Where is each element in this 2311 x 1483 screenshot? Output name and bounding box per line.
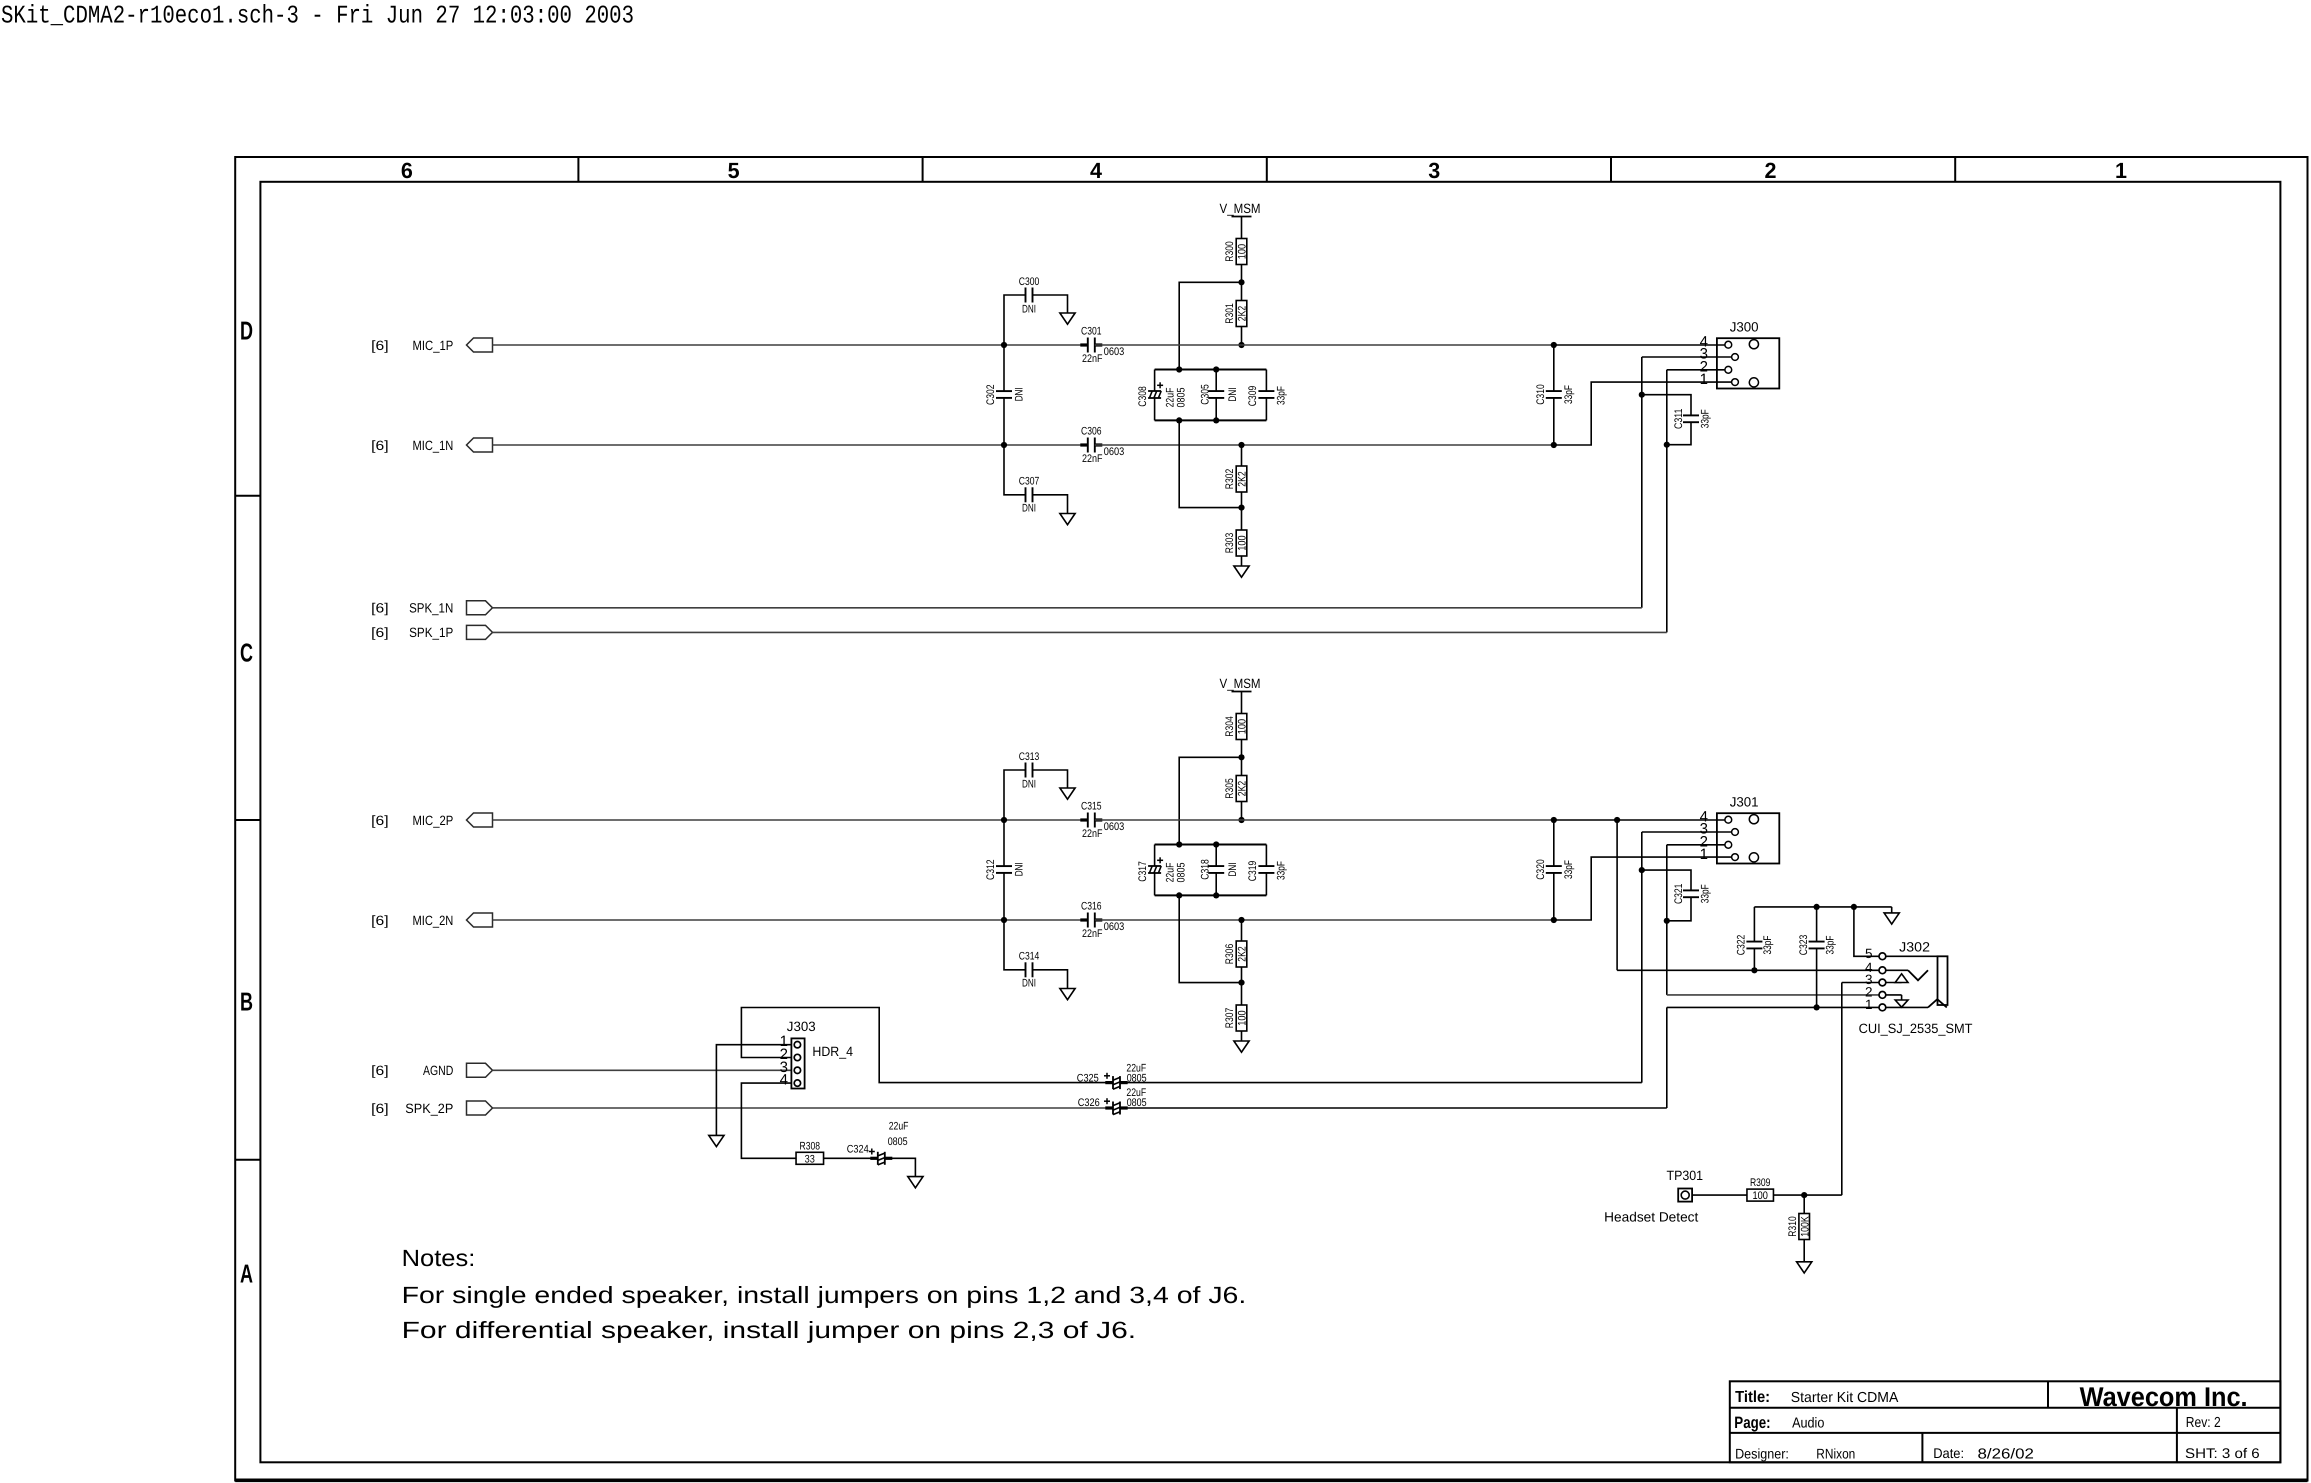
wire	[493, 1107, 1113, 1109]
svg-text:DNI: DNI	[1227, 863, 1239, 877]
connector J302	[1859, 940, 1973, 1037]
svg-text:33: 33	[805, 1153, 815, 1165]
svg-text:C313: C313	[1019, 751, 1040, 763]
ground	[1060, 514, 1075, 525]
junction	[1238, 980, 1244, 986]
svg-text:AGND: AGND	[423, 1063, 453, 1078]
svg-text:6: 6	[401, 158, 413, 183]
pin 2	[780, 1046, 788, 1063]
svg-text:HDR_4: HDR_4	[812, 1044, 853, 1059]
wire	[1616, 820, 1618, 970]
pin 2	[1700, 359, 1708, 376]
pin 4	[1700, 808, 1708, 825]
capacitor C321	[1642, 870, 1712, 921]
wire	[1004, 770, 1026, 820]
svg-text:C300: C300	[1019, 276, 1040, 288]
svg-text:R307: R307	[1224, 1008, 1236, 1028]
wire	[1095, 344, 1554, 346]
ground	[1797, 1262, 1812, 1273]
wire	[493, 631, 1667, 633]
port SPK_1P	[371, 625, 492, 640]
junction	[1238, 442, 1244, 448]
wire	[1241, 920, 1243, 941]
resistor R300	[1224, 239, 1249, 265]
svg-text:8/26/02: 8/26/02	[1978, 1446, 2034, 1462]
junction	[1751, 967, 1757, 973]
resistor R306	[1224, 941, 1249, 967]
wire	[1155, 894, 1267, 896]
resistor R309	[1747, 1177, 1774, 1202]
capacitor C315	[1080, 801, 1124, 840]
svg-text:[6]: [6]	[371, 813, 388, 828]
wire	[741, 1083, 796, 1158]
junction	[1001, 817, 1007, 823]
svg-text:TP301: TP301	[1667, 1168, 1704, 1183]
ground	[1060, 989, 1075, 1000]
capacitor C314	[1019, 951, 1040, 990]
junction	[1851, 904, 1857, 910]
svg-text:SHT: 3 of 6: SHT: 3 of 6	[2185, 1445, 2260, 1461]
wire	[1241, 757, 1243, 775]
wire	[1642, 831, 1735, 833]
svg-text:0603: 0603	[1104, 446, 1125, 458]
jack NC contact	[1895, 974, 1908, 983]
svg-text:3: 3	[1428, 158, 1440, 183]
wire	[1803, 1195, 1805, 1213]
wire	[741, 1008, 1112, 1083]
svg-text:For single ended speaker, inst: For single ended speaker, install jumper…	[402, 1282, 1247, 1308]
pin 4	[1865, 960, 1873, 975]
svg-text:100: 100	[1237, 719, 1249, 734]
capacitor C305	[1200, 370, 1239, 421]
junction	[1238, 917, 1244, 923]
capacitor C317	[1137, 845, 1188, 896]
node Headset Detect	[1604, 1210, 1698, 1225]
junction	[1639, 392, 1645, 398]
pin 3	[1700, 346, 1708, 363]
svg-text:DNI: DNI	[1022, 778, 1036, 790]
svg-text:100K: 100K	[1799, 1216, 1811, 1237]
svg-text:C306: C306	[1081, 426, 1102, 438]
capacitor C301	[1080, 326, 1124, 365]
junction	[1614, 817, 1620, 823]
port MIC_2P	[371, 813, 492, 828]
svg-text:[6]: [6]	[371, 1063, 388, 1078]
wire	[1554, 819, 1729, 821]
capacitor C320	[1535, 820, 1575, 920]
svg-text:C320: C320	[1535, 859, 1547, 880]
svg-text:DNI: DNI	[1022, 978, 1036, 990]
wire	[1095, 919, 1554, 921]
junction	[1238, 279, 1244, 285]
svg-text:33pF: 33pF	[1563, 860, 1575, 879]
svg-text:R305: R305	[1224, 778, 1236, 798]
wire	[1155, 844, 1267, 846]
svg-text:C308: C308	[1137, 386, 1149, 407]
svg-text:B: B	[240, 987, 253, 1017]
capacitor C326	[1078, 1087, 1147, 1114]
svg-text:R301: R301	[1224, 303, 1236, 323]
wire	[1554, 344, 1729, 346]
wire	[1666, 845, 1668, 995]
svg-text:33pF: 33pF	[1699, 884, 1711, 903]
junction	[1213, 366, 1219, 372]
junction	[1213, 841, 1219, 847]
svg-text:33pF: 33pF	[1824, 935, 1836, 954]
svg-text:DNI: DNI	[1022, 303, 1036, 315]
connector J300	[1717, 319, 1779, 388]
svg-text:Audio: Audio	[1792, 1416, 1824, 1432]
pin 4	[1700, 333, 1708, 350]
svg-text:DNI: DNI	[1014, 387, 1026, 401]
wire	[1841, 983, 1843, 1196]
svg-text:J301: J301	[1730, 794, 1759, 809]
svg-text:CUI_SJ_2535_SMT: CUI_SJ_2535_SMT	[1859, 1021, 1973, 1036]
note text	[402, 1245, 1247, 1343]
wire	[1882, 994, 1901, 996]
svg-text:C302: C302	[985, 384, 997, 405]
svg-text:0805: 0805	[1176, 863, 1188, 883]
svg-text:0603: 0603	[1104, 346, 1125, 358]
junction	[1664, 918, 1670, 924]
wire	[1692, 1194, 1747, 1196]
wire	[1155, 369, 1267, 371]
resistor R303	[1224, 530, 1249, 556]
junction	[1001, 342, 1007, 348]
svg-text:[6]: [6]	[371, 438, 388, 453]
wire	[1891, 907, 1893, 913]
ground	[1060, 788, 1075, 799]
junction	[1238, 505, 1244, 511]
power V_MSM	[1220, 201, 1261, 239]
svg-text:Notes:: Notes:	[402, 1245, 476, 1271]
wire	[1033, 770, 1068, 788]
connector J303	[787, 1019, 854, 1089]
resistor R302	[1224, 466, 1249, 492]
svg-text:22uF: 22uF	[889, 1121, 909, 1133]
wire	[493, 444, 1088, 446]
resistor R301	[1224, 301, 1249, 327]
ground	[1234, 1041, 1249, 1052]
wire	[1241, 556, 1243, 566]
capacitor C313	[1019, 751, 1040, 791]
svg-text:Rev: 2: Rev: 2	[2186, 1415, 2221, 1431]
connector J301	[1717, 794, 1779, 863]
wire	[1854, 907, 1883, 956]
wire	[1241, 967, 1243, 983]
ground	[908, 1177, 923, 1188]
svg-text:DNI: DNI	[1014, 862, 1026, 876]
wire	[1033, 295, 1068, 313]
svg-text:[6]: [6]	[371, 913, 388, 928]
svg-text:C318: C318	[1200, 859, 1212, 880]
svg-text:100: 100	[1753, 1190, 1768, 1202]
capacitor C307	[1019, 476, 1040, 515]
svg-text:2: 2	[1765, 158, 1777, 183]
wire	[1241, 282, 1243, 300]
svg-text:V_MSM: V_MSM	[1220, 676, 1261, 691]
svg-text:2K2: 2K2	[1237, 471, 1249, 486]
svg-text:0805: 0805	[888, 1136, 908, 1148]
wire	[1033, 970, 1068, 989]
wire	[1241, 508, 1243, 530]
wire	[1095, 444, 1554, 446]
resistor R307	[1224, 1005, 1249, 1031]
wire	[716, 1045, 791, 1136]
wire	[1003, 820, 1005, 866]
capacitor C309	[1247, 370, 1287, 421]
svg-text:C316: C316	[1081, 901, 1102, 913]
svg-text:C319: C319	[1247, 861, 1259, 882]
svg-text:J303: J303	[787, 1019, 816, 1034]
svg-text:R308: R308	[800, 1140, 820, 1152]
wire	[1241, 1031, 1243, 1041]
pin 1	[780, 1033, 788, 1050]
junction	[1176, 366, 1182, 372]
svg-text:C: C	[240, 638, 253, 668]
svg-text:MIC_2P: MIC_2P	[413, 813, 454, 828]
wire	[1803, 1240, 1805, 1262]
wire	[1667, 994, 1883, 996]
junction	[1213, 417, 1219, 423]
wire	[1241, 492, 1243, 508]
svg-text:J300: J300	[1730, 319, 1759, 334]
wire	[1004, 445, 1026, 495]
capacitor C311	[1642, 395, 1712, 445]
wire	[1882, 955, 1937, 957]
svg-text:22nF: 22nF	[1082, 928, 1103, 940]
wire	[1004, 295, 1026, 345]
junction	[1814, 904, 1820, 910]
svg-text:33pF: 33pF	[1699, 409, 1711, 428]
pin 4	[780, 1072, 788, 1089]
junction	[1551, 442, 1557, 448]
pin 3	[1700, 821, 1708, 838]
svg-text:C323: C323	[1798, 935, 1810, 956]
svg-text:C309: C309	[1247, 386, 1259, 407]
wire	[1003, 873, 1005, 920]
svg-text:Page:: Page:	[1734, 1414, 1770, 1432]
svg-text:C324: C324	[847, 1143, 869, 1155]
pin 3	[780, 1059, 788, 1076]
resistor R305	[1224, 776, 1249, 802]
wire	[1241, 802, 1243, 821]
svg-text:SPK_2P: SPK_2P	[405, 1101, 453, 1116]
junction	[1001, 442, 1007, 448]
ground	[709, 1135, 724, 1146]
wire	[1120, 1107, 1667, 1109]
svg-text:33pF: 33pF	[1762, 935, 1774, 954]
svg-text:R303: R303	[1224, 533, 1236, 553]
jack NC contact 2	[1895, 1000, 1908, 1007]
wire	[824, 1157, 878, 1159]
svg-text:2K2: 2K2	[1237, 306, 1249, 321]
wire	[1842, 982, 1883, 984]
junction	[1814, 1004, 1820, 1010]
wire	[1179, 282, 1241, 369]
svg-text:33pF: 33pF	[1563, 385, 1575, 404]
svg-text:SPK_1P: SPK_1P	[409, 625, 453, 640]
capacitor C324	[847, 1121, 909, 1165]
pin 5	[1865, 946, 1873, 961]
junction	[1801, 1192, 1807, 1198]
junction	[1001, 917, 1007, 923]
wire	[1882, 1006, 1928, 1008]
svg-text:[6]: [6]	[371, 601, 388, 616]
wire	[1666, 370, 1668, 633]
capacitor C306	[1080, 426, 1124, 465]
wire	[1179, 757, 1241, 844]
jack sleeve	[1938, 956, 1948, 1005]
pin 2	[1865, 985, 1873, 1000]
wire	[1666, 1007, 1668, 1108]
capacitor C308	[1137, 370, 1188, 421]
wire	[493, 1069, 792, 1071]
capacitor C322	[1736, 907, 1775, 970]
svg-text:22nF: 22nF	[1082, 453, 1103, 465]
wire	[1241, 983, 1243, 1005]
svg-text:A: A	[240, 1259, 253, 1289]
power V_MSM	[1220, 676, 1261, 714]
jack tip contact	[1908, 970, 1928, 980]
svg-text:C321: C321	[1673, 884, 1685, 905]
wire	[1642, 356, 1735, 358]
capacitor C300	[1019, 276, 1040, 316]
svg-text:D: D	[240, 316, 253, 346]
svg-text:C307: C307	[1019, 476, 1040, 488]
pin 3	[1865, 972, 1873, 987]
wire	[1754, 906, 1891, 908]
port MIC_1N	[371, 438, 492, 453]
wire	[1882, 982, 1901, 984]
svg-text:RNixon: RNixon	[1816, 1445, 1855, 1461]
svg-text:Designer:: Designer:	[1735, 1445, 1789, 1461]
svg-text:MIC_1P: MIC_1P	[413, 338, 454, 353]
svg-text:R310: R310	[1787, 1216, 1799, 1236]
junction	[1551, 917, 1557, 923]
wire	[1004, 920, 1026, 970]
svg-text:2K2: 2K2	[1237, 781, 1249, 796]
wire	[493, 607, 1642, 609]
capacitor C316	[1080, 901, 1124, 940]
svg-text:5: 5	[728, 158, 740, 183]
resistor R304	[1224, 714, 1249, 740]
junction	[1176, 417, 1182, 423]
wire	[1003, 345, 1005, 391]
svg-text:4: 4	[780, 1072, 788, 1089]
wire	[1241, 327, 1243, 346]
wire	[1882, 969, 1908, 971]
svg-text:V_MSM: V_MSM	[1220, 201, 1261, 216]
svg-text:C312: C312	[985, 859, 997, 880]
capacitor C319	[1247, 845, 1287, 896]
wire	[1667, 369, 1729, 371]
svg-text:1: 1	[1865, 997, 1873, 1012]
svg-text:Title:: Title:	[1735, 1389, 1770, 1406]
wire	[1667, 844, 1729, 846]
svg-text:C310: C310	[1535, 384, 1547, 405]
wire	[493, 344, 1088, 346]
wire	[1641, 832, 1643, 1083]
ground	[1060, 313, 1075, 324]
wire	[1774, 1194, 1842, 1196]
svg-text:R309: R309	[1750, 1177, 1770, 1189]
svg-text:C317: C317	[1137, 861, 1149, 882]
capacitor C318	[1200, 845, 1239, 896]
wire	[1554, 382, 1735, 445]
svg-text:33pF: 33pF	[1275, 386, 1287, 405]
pin 1	[1865, 997, 1873, 1012]
junction	[1664, 442, 1670, 448]
junction	[1238, 342, 1244, 348]
wire	[1003, 398, 1005, 445]
svg-text:[6]: [6]	[371, 1101, 388, 1116]
capacitor C310	[1535, 345, 1575, 445]
svg-text:C305: C305	[1200, 384, 1212, 405]
svg-text:1: 1	[1700, 371, 1708, 388]
svg-text:R300: R300	[1224, 241, 1236, 261]
svg-text:100: 100	[1237, 535, 1249, 550]
svg-text:C311: C311	[1673, 409, 1685, 430]
resistor R310	[1787, 1214, 1812, 1240]
svg-text:4: 4	[1090, 158, 1103, 183]
svg-text:1: 1	[2115, 158, 2127, 183]
svg-text:100: 100	[1237, 244, 1249, 259]
resistor R308	[796, 1140, 824, 1165]
test point TP301	[1667, 1168, 1704, 1202]
svg-text:DNI: DNI	[1022, 503, 1036, 515]
junction	[1551, 342, 1557, 348]
svg-text:5: 5	[1865, 946, 1873, 961]
svg-text:22nF: 22nF	[1082, 828, 1103, 840]
junction	[1238, 754, 1244, 760]
svg-text:Wavecom Inc.: Wavecom Inc.	[2080, 1382, 2248, 1412]
svg-text:100: 100	[1237, 1010, 1249, 1025]
port AGND	[371, 1063, 492, 1078]
ground	[1234, 566, 1249, 577]
pin 1	[1700, 371, 1708, 388]
wire	[1155, 419, 1267, 421]
port MIC_1P	[371, 338, 492, 353]
port SPK_2P	[371, 1101, 492, 1116]
svg-text:C325: C325	[1077, 1073, 1099, 1085]
svg-text:R302: R302	[1224, 469, 1236, 489]
capacitor C302	[985, 384, 1025, 405]
svg-text:C322: C322	[1736, 935, 1748, 956]
svg-text:22nF: 22nF	[1082, 353, 1103, 365]
junction	[1639, 867, 1645, 873]
svg-text:R304: R304	[1224, 716, 1236, 736]
wire	[1095, 819, 1554, 821]
svg-text:C314: C314	[1019, 951, 1040, 963]
svg-text:SPK_1N: SPK_1N	[409, 601, 453, 616]
ground	[1884, 913, 1899, 924]
capacitor C325	[1077, 1063, 1147, 1090]
junction	[1176, 892, 1182, 898]
wire	[1241, 445, 1243, 466]
svg-text:For differential speaker, inst: For differential speaker, install jumper…	[402, 1317, 1137, 1343]
junction	[1213, 892, 1219, 898]
svg-text:0603: 0603	[1104, 921, 1125, 933]
svg-text:2K2: 2K2	[1237, 946, 1249, 961]
wire	[1033, 495, 1068, 514]
junction	[1238, 817, 1244, 823]
svg-text:J302: J302	[1899, 940, 1930, 955]
svg-text:C315: C315	[1081, 801, 1102, 813]
svg-text:0603: 0603	[1104, 821, 1125, 833]
wire	[1179, 420, 1241, 507]
pin 1	[1700, 846, 1708, 863]
